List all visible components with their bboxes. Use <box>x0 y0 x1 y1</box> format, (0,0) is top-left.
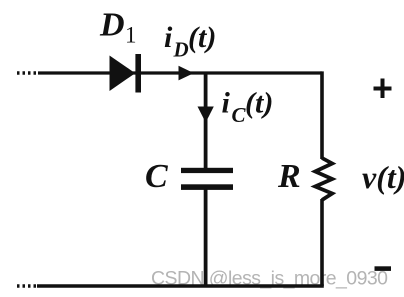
svg-text:R: R <box>277 158 301 195</box>
wire right vertical upper <box>320 71 324 159</box>
svg-text:D: D <box>99 7 125 44</box>
resistor R zigzag <box>315 158 332 200</box>
svg-text:i: i <box>164 21 173 54</box>
svg-text:D: D <box>173 38 189 62</box>
capacitor C plates <box>181 168 233 190</box>
svg-text:(t): (t) <box>188 21 216 54</box>
wire bottom horizontal <box>37 284 324 288</box>
plus terminal <box>374 79 392 99</box>
svg-text:i: i <box>222 87 231 120</box>
wire right vertical lower <box>320 199 324 286</box>
svg-text:(t): (t) <box>245 87 273 120</box>
wire top dotted lead-in <box>17 71 38 75</box>
wire middle vertical lower (capacitor to bottom) <box>204 190 208 287</box>
diode D1 <box>110 54 142 93</box>
wire middle vertical upper (to capacitor) <box>204 73 208 169</box>
minus terminal <box>375 266 392 271</box>
svg-text:v(t): v(t) <box>362 159 404 195</box>
wire top horizontal <box>38 71 322 74</box>
current arrow iD <box>179 66 194 81</box>
svg-text:1: 1 <box>125 23 137 48</box>
current arrow iC <box>198 107 214 123</box>
svg-text:C: C <box>145 158 168 195</box>
wire bottom dotted lead-in <box>17 284 37 288</box>
